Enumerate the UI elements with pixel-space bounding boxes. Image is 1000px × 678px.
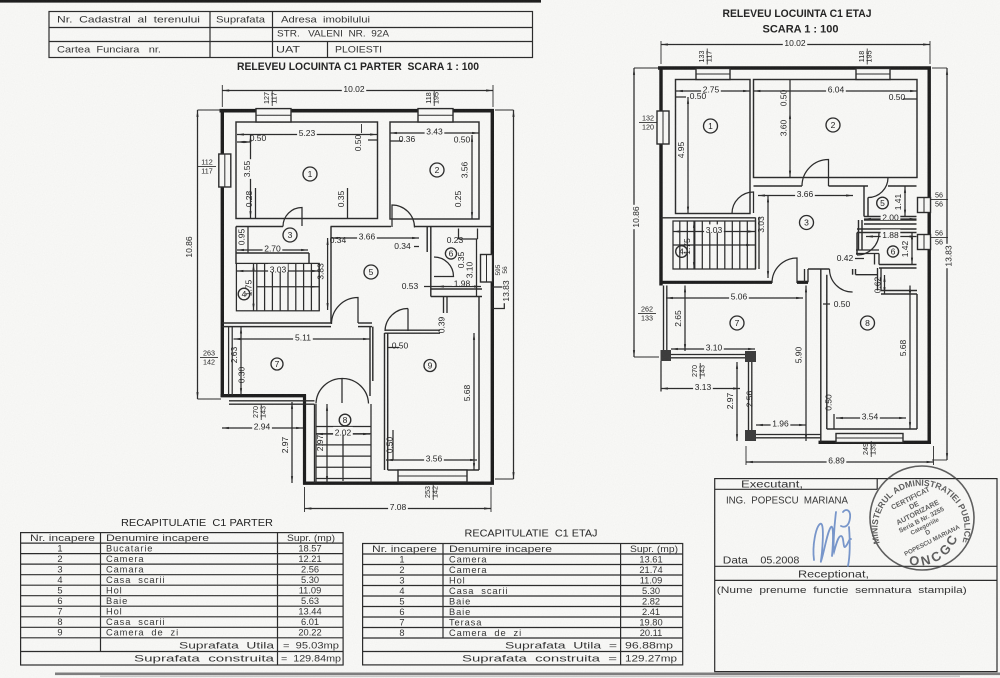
parter room2 walls — [390, 122, 479, 219]
etaj terrace railing right — [748, 362, 750, 430]
dim etaj 5.06 — [666, 297, 803, 299]
etaj window right 1 — [918, 198, 931, 213]
dim etaj 2.65 — [684, 286, 686, 352]
etaj rooms bottom wall lower face — [754, 185, 803, 187]
parter outer wall room7 bottom — [221, 394, 307, 397]
paper grain — [0, 0, 1, 1]
room etaj 4 — [676, 246, 688, 258]
room parter 8 — [339, 414, 351, 426]
room parter 2 — [430, 163, 444, 177]
dim parter 5.23 — [237, 134, 377, 136]
etaj door room3 to terrace — [772, 258, 797, 283]
signature blue — [813, 510, 851, 566]
etaj outer wall left — [659, 67, 662, 286]
etaj lower-left wall — [660, 281, 773, 284]
room parter 9 — [424, 360, 436, 372]
recap parter frame — [21, 533, 344, 665]
dim parter 13.83 — [495, 109, 514, 111]
etaj room6 walls — [857, 228, 917, 230]
scan top edge line — [0, 0, 541, 3]
etaj room6-room8 jog — [877, 268, 879, 291]
dim etaj 1.75 — [693, 221, 695, 269]
dim etaj 4.95 — [687, 97, 689, 214]
dim etaj 3.60 — [789, 112, 791, 178]
parter outer wall bottom — [303, 482, 494, 485]
parter room6 niche — [458, 229, 460, 240]
stamp center text — [881, 480, 961, 558]
dim parter 7.08 — [304, 487, 306, 512]
dim parter 0.50v room1 — [361, 124, 363, 133]
parter room8 left inner — [314, 404, 316, 483]
room etaj 3 — [800, 216, 814, 230]
parter room3 walls — [236, 252, 309, 254]
parter stairs room4 — [236, 263, 319, 310]
dim etaj 5.90 — [805, 286, 807, 442]
dim etaj 3.66 — [758, 195, 853, 197]
room etaj 5 — [877, 197, 889, 209]
dim etaj 3.54 — [836, 417, 906, 419]
parter door room6 — [434, 257, 454, 277]
parter outer wall top — [220, 109, 495, 113]
dim etaj 2.75 — [676, 90, 750, 92]
room parter 3 — [283, 228, 297, 242]
dim etaj 1.96 — [756, 424, 806, 426]
room etaj 7 — [730, 316, 744, 330]
dim parter 10.86 — [198, 109, 222, 111]
dim etaj 0.50 room8 bottom — [833, 414, 835, 429]
dim parter 0.35 — [347, 188, 349, 218]
etaj window left — [657, 111, 669, 144]
dim parter 0.95 — [247, 227, 249, 254]
parter door corridor — [332, 298, 359, 325]
parter window top 1 — [256, 109, 291, 122]
parter outer wall right — [491, 109, 494, 485]
parter room6 walls — [426, 227, 428, 253]
dim etaj 3.13 — [661, 388, 740, 390]
etaj stair-hall divider — [755, 218, 757, 270]
dim parter 3.83 — [327, 238, 329, 310]
etaj door room6 — [857, 233, 879, 255]
etaj window top 2 — [856, 69, 890, 80]
etaj door room2 — [802, 160, 829, 187]
etaj terrace post top-left — [661, 350, 672, 361]
parter window top 2 — [418, 109, 453, 122]
dim etaj 3.03 stairs — [673, 231, 755, 233]
parter room6 small wall — [443, 297, 445, 334]
executant box frame — [715, 479, 997, 672]
etaj hall-room8 junction — [804, 269, 806, 282]
etaj room8 bottom window — [836, 434, 903, 443]
dim parter 0.28 — [255, 188, 257, 218]
parter wall under rooms1-2 — [331, 226, 392, 228]
room etaj 8 — [861, 316, 875, 330]
dim parter 1.98 — [437, 286, 481, 288]
etaj outer wall bottom — [819, 441, 932, 444]
dim parter 5.68 — [473, 333, 475, 470]
etaj hall-room6 wall — [858, 220, 860, 250]
parter corridor wall below stairs — [222, 322, 331, 324]
room parter 1 — [303, 167, 317, 181]
parter door room1-room3 arc — [283, 208, 302, 227]
dim etaj 0.62 — [884, 275, 886, 294]
etaj terrace post mid — [745, 351, 756, 362]
parter right step outside — [492, 287, 504, 309]
room etaj 6 — [887, 246, 898, 257]
etaj outer wall top — [658, 66, 931, 70]
dim parter 2.02 — [316, 433, 370, 435]
dim etaj 6.89 — [745, 446, 747, 465]
dim etaj 3.10 — [671, 348, 755, 350]
dim etaj 1.42 — [911, 233, 913, 265]
dim parter 0.50 room9 bottom — [392, 430, 394, 460]
dim parter 3.66 hall — [331, 237, 419, 239]
etaj window right 2 — [918, 235, 931, 250]
dim etaj 10.02 — [660, 41, 662, 64]
dim parter 0.50 room1 — [237, 141, 251, 143]
dim parter 2.70 — [237, 249, 308, 251]
dim etaj 5.68 — [909, 286, 911, 430]
room parter 6 — [445, 248, 456, 259]
etaj terrace railing bottom — [756, 434, 821, 436]
stamp circle — [869, 466, 974, 570]
dim parter 3.56 room2 — [471, 135, 473, 219]
etaj terrace post bottom — [745, 430, 756, 441]
dim parter 10.02 — [221, 85, 223, 107]
parter right wall window — [481, 255, 493, 283]
room parter 4 — [238, 288, 250, 300]
parter bottom window room9 — [398, 470, 467, 482]
parter room1 walls — [236, 122, 378, 219]
parter door hall-room9 — [385, 308, 408, 331]
room etaj 1 — [704, 119, 718, 133]
dim etaj 1.88 — [866, 236, 917, 238]
dim parter 2.94 — [222, 427, 303, 429]
etaj door room5 — [868, 178, 888, 198]
dim parter 2.63 — [240, 327, 242, 395]
etaj terrace railing top — [671, 354, 745, 356]
parter stairs room8 — [316, 404, 371, 483]
dim etaj 2.00 — [864, 218, 917, 220]
etaj room5 walls — [863, 186, 865, 217]
room etaj 2 — [826, 118, 840, 132]
dim etaj 1.41 — [904, 186, 906, 217]
parter room7 step lines — [229, 400, 315, 402]
etaj terrace left wall — [663, 286, 665, 351]
etaj terrace left edge — [660, 361, 662, 392]
etaj room8 walls — [820, 269, 822, 442]
etaj outer wall right — [928, 67, 931, 445]
etaj window top 1 — [696, 69, 730, 80]
dim parter 2.97 b — [326, 404, 328, 483]
header table frame — [49, 12, 533, 58]
dim parter 5.11 — [234, 338, 371, 340]
etaj door room8 — [830, 269, 853, 292]
dim etaj 6.04 — [754, 90, 918, 92]
etaj door room1 — [732, 192, 754, 214]
dim parter 3.10 — [476, 239, 478, 297]
dim parter 2.97 a — [291, 402, 293, 483]
etaj stairs — [673, 221, 756, 269]
recap etaj frame — [363, 544, 683, 665]
parter outer wall left — [221, 109, 224, 397]
parter outer wall left lower — [303, 395, 306, 485]
dim etaj 13.83 — [932, 67, 947, 69]
dim parter 3.43 — [390, 132, 479, 134]
parter door room2 from hall — [392, 205, 415, 228]
dim parter 3.03 — [237, 270, 320, 272]
dim parter 1.75 — [253, 264, 255, 311]
parter room8 double door arcs — [316, 378, 342, 403]
parter room7 right wall — [369, 327, 371, 396]
room parter 5 — [364, 265, 378, 279]
dim etaj 10.86 — [634, 67, 659, 69]
dim parter 3.56 bottom — [386, 459, 477, 461]
dim etaj 3.03 hall — [767, 196, 769, 279]
dim parter 0.39 — [440, 313, 449, 337]
etaj room1 walls — [676, 80, 751, 214]
etaj room2 walls — [754, 80, 918, 178]
parter room7 left inner lines — [228, 327, 230, 395]
dim parter 3.55 — [250, 135, 252, 218]
parter window left — [219, 154, 231, 187]
room parter 7 — [271, 358, 283, 370]
parter room9 walls — [384, 333, 386, 470]
scan bottom edge — [55, 673, 1000, 676]
dim etaj 0.50v room2 — [789, 80, 791, 113]
etaj wall under room1 lower face — [661, 217, 756, 219]
dim etaj 2.97 — [736, 362, 738, 441]
parter hall left wall — [330, 227, 332, 324]
